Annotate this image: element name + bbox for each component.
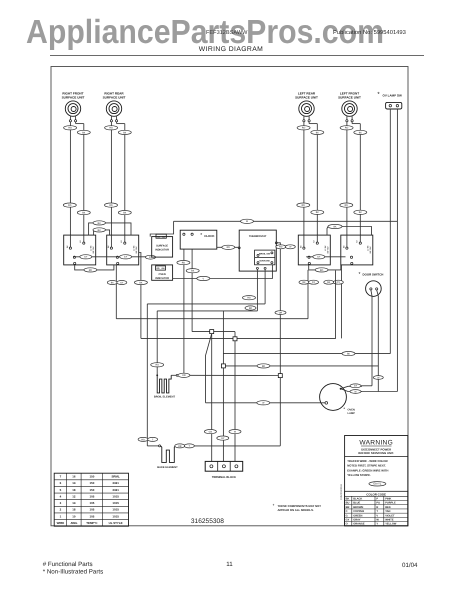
svg-text:14: 14 (72, 481, 76, 485)
svg-text:18: 18 (72, 488, 76, 492)
svg-text:RD: RD (68, 204, 72, 207)
svg-text:1015: 1015 (112, 494, 119, 498)
wire label pair (138, 437, 148, 441)
note components (273, 503, 322, 512)
svg-text:WIRE: WIRE (57, 521, 65, 525)
wire box4 bottom down (341, 265, 343, 339)
wire door switch right down (377, 290, 379, 392)
wire label (105, 126, 118, 130)
svg-text:RED: RED (385, 506, 391, 509)
svg-text:LAMP: LAMP (348, 412, 356, 415)
surface unit left rear (295, 92, 318, 122)
svg-text:16: 16 (72, 475, 76, 479)
wire clock right down (191, 249, 193, 332)
svg-text:THERMOSTAT: THERMOSTAT (249, 235, 267, 238)
header rule (50, 54, 424, 56)
svg-text:GY: GY (354, 385, 358, 388)
wire label (217, 436, 229, 440)
wire label (63, 203, 76, 207)
svg-text:YELLOW: YELLOW (385, 523, 397, 526)
svg-text:CLOCK: CLOCK (204, 234, 215, 238)
wire jumper H1 (89, 223, 131, 235)
wire label (118, 130, 131, 134)
svg-text:BK: BK (123, 131, 127, 134)
publication number (333, 29, 406, 36)
svg-text:VIOLET: VIOLET (385, 514, 395, 517)
svg-text:*: * (343, 407, 345, 412)
wire label (342, 352, 355, 356)
svg-text:RD: RD (109, 127, 113, 130)
wire label (350, 384, 361, 388)
svg-text:OR: OR (279, 312, 283, 315)
wire label (77, 130, 90, 134)
svg-text:BR: BR (346, 506, 350, 509)
wire label (311, 210, 324, 214)
svg-text:GY: GY (317, 256, 321, 259)
svg-text:OR: OR (182, 374, 186, 377)
svg-text:APPEAR ON ALL MODELS.: APPEAR ON ALL MODELS. (278, 508, 314, 512)
svg-text:# Functional Parts: # Functional Parts (43, 561, 93, 568)
svg-text:11: 11 (226, 561, 233, 568)
svg-text:BROWN: BROWN (353, 506, 363, 509)
wire oven lamp switch left (389, 109, 391, 354)
wire box2 side down (139, 253, 141, 339)
wire label (146, 255, 156, 259)
svg-text:BK: BK (123, 212, 127, 215)
wire door switch left down (371, 290, 372, 386)
wire label (93, 228, 106, 232)
svg-text:COLOR CODE: COLOR CODE (366, 492, 386, 496)
wire label (178, 373, 190, 377)
svg-text:BK: BK (111, 281, 115, 284)
svg-text:O: O (346, 523, 348, 526)
svg-text:GY: GY (221, 437, 225, 440)
svg-text:PU: PU (376, 502, 380, 505)
svg-text:GREEN: GREEN (353, 514, 362, 517)
wire bake to square (178, 445, 281, 447)
wire gauge table (54, 473, 128, 526)
watermark AppliancePartsPros.com (26, 14, 384, 51)
svg-text:BK: BK (98, 222, 102, 225)
svg-text:WIRING DIAGRAM: WIRING DIAGRAM (199, 46, 264, 53)
page number (226, 561, 233, 568)
wire broil feed (256, 269, 258, 311)
svg-text:INDICATOR: INDICATOR (155, 248, 169, 251)
wire bus A (116, 318, 308, 320)
wire diagonal (206, 334, 212, 403)
wire label (328, 224, 342, 228)
svg-text:3321: 3321 (112, 488, 119, 492)
svg-text:GN-YL: GN-YL (373, 483, 381, 486)
wire jumper H2 (94, 230, 110, 235)
svg-text:1015: 1015 (112, 501, 119, 505)
wire junction square B (233, 332, 237, 462)
wire label (80, 255, 92, 259)
wire label (373, 376, 383, 380)
svg-text:Y: Y (376, 523, 378, 526)
svg-text:INF SW: INF SW (327, 246, 330, 253)
svg-text:RD: RD (109, 204, 113, 207)
svg-text:TEMP°C: TEMP°C (86, 521, 98, 525)
tracer example symbol (369, 482, 386, 486)
wire label (93, 221, 106, 225)
wire box2 bottom down (115, 265, 117, 319)
svg-text:GY: GY (124, 256, 128, 259)
svg-text:SURFACE UNIT: SURFACE UNIT (295, 95, 318, 99)
svg-text:* Non-Illustrated Parts: * Non-Illustrated Parts (43, 569, 104, 576)
svg-text:BK: BK (316, 211, 320, 214)
svg-text:BK: BK (359, 211, 363, 214)
footer notes (43, 561, 104, 576)
svg-text:EXAMPLE: GREEN WIRE WITH: EXAMPLE: GREEN WIRE WITH (347, 468, 388, 472)
svg-text:WARNING: WARNING (359, 440, 393, 447)
svg-text:C: C (346, 510, 348, 513)
wire label (197, 276, 210, 280)
svg-text:L2 BK: L2 BK (132, 245, 135, 251)
svg-text:14: 14 (72, 501, 76, 505)
svg-text:V: V (376, 514, 378, 517)
svg-text:GY: GY (346, 518, 350, 521)
svg-text:G: G (346, 514, 348, 517)
svg-text:TERMINAL BLOCK: TERMINAL BLOCK (212, 476, 236, 479)
thermostat (238, 230, 277, 271)
svg-text:1015: 1015 (112, 508, 119, 512)
svg-text:BK: BK (302, 281, 306, 284)
model number text (206, 30, 248, 36)
svg-text:SURFACE UNIT: SURFACE UNIT (62, 95, 85, 99)
wire label (84, 268, 97, 272)
part number 316255308 (191, 518, 224, 525)
svg-text:WHITE: WHITE (385, 518, 394, 521)
svg-text:COPPER: COPPER (353, 510, 364, 513)
svg-text:RD: RD (227, 246, 231, 249)
svg-text:BK: BK (346, 497, 350, 500)
surface indicator (152, 234, 173, 257)
wire label (297, 203, 310, 207)
svg-text:BK: BK (316, 131, 320, 134)
svg-text:FEF312BSAWW: FEF312BSAWW (206, 30, 248, 36)
date (402, 562, 418, 569)
svg-text:*: * (359, 271, 361, 277)
svg-text:RD: RD (141, 438, 145, 441)
wire oven lamp right lower (341, 389, 362, 392)
svg-text:RD: RD (302, 204, 306, 207)
svg-text:BK: BK (139, 281, 143, 284)
svg-text:INF SW: INF SW (92, 246, 95, 253)
wire label (313, 255, 325, 259)
svg-text:105: 105 (89, 494, 94, 498)
svg-text:316255308: 316255308 (191, 518, 224, 525)
svg-text:INDICATOR: INDICATOR (155, 277, 169, 280)
svg-text:01/04: 01/04 (402, 562, 418, 569)
svg-text:150: 150 (89, 475, 94, 479)
svg-text:NOTED FIRST, STRIPE NEXT.: NOTED FIRST, STRIPE NEXT. (347, 464, 386, 468)
broil element (154, 367, 178, 399)
svg-text:10: 10 (72, 514, 76, 518)
svg-text:BK: BK (359, 131, 363, 134)
wire (124, 140, 126, 235)
wire label (134, 280, 147, 284)
wire bake feed (264, 269, 266, 304)
svg-text:P: P (376, 497, 378, 500)
wire label (151, 363, 164, 367)
wire label (350, 390, 361, 394)
wire (110, 135, 112, 235)
wire surface unit leads (304, 122, 317, 140)
svg-text:TAN: TAN (385, 510, 390, 513)
wire clock junction (192, 330, 235, 334)
svg-text:RD: RD (345, 127, 349, 130)
wire oven lamp right upper (341, 386, 362, 388)
wire link box3-box4 (309, 265, 341, 270)
svg-text:BROIL SW: BROIL SW (259, 252, 271, 255)
infinite switch right rear (107, 235, 139, 265)
wire label (315, 268, 328, 272)
wire label (275, 311, 286, 315)
svg-text:316255308JA: 316255308JA (340, 484, 343, 500)
wire label (354, 130, 367, 134)
terminal block (205, 461, 243, 478)
wire (83, 140, 85, 235)
svg-text:BLACK: BLACK (353, 497, 362, 500)
wire label (340, 203, 353, 207)
svg-text:UL STYLE: UL STYLE (109, 521, 123, 525)
wire broil to square (178, 374, 278, 376)
title WIRING DIAGRAM (199, 46, 264, 53)
wire junction square C (221, 311, 225, 462)
svg-text:L2 BK: L2 BK (366, 245, 369, 251)
svg-text:*: * (200, 233, 202, 239)
svg-text:BK: BK (327, 281, 331, 284)
svg-text:INF SW: INF SW (369, 246, 372, 253)
wire top bus (150, 221, 397, 236)
surface unit right rear (103, 92, 126, 122)
svg-text:BLUE: BLUE (353, 502, 360, 505)
wire label (257, 401, 270, 405)
wire (346, 135, 348, 235)
wire (69, 135, 71, 235)
wire label (77, 211, 90, 215)
wire label (118, 211, 131, 215)
surface unit right front (62, 92, 85, 122)
wire label (241, 219, 254, 223)
wire label (311, 130, 324, 134)
wire oven lamp left (206, 402, 326, 404)
svg-text:RD: RD (320, 269, 324, 272)
svg-text:*: * (273, 503, 275, 508)
svg-text:BK: BK (98, 229, 102, 232)
wire clock to thermostat (217, 246, 238, 248)
bake element (147, 445, 178, 469)
wire oven indicator to thermostat (173, 265, 273, 279)
wire surface unit leads (347, 122, 360, 140)
oven indicator (152, 265, 173, 280)
svg-text:PINK: PINK (385, 497, 391, 500)
wire label pair (175, 444, 185, 448)
svg-text:GRAY: GRAY (353, 518, 361, 521)
svg-text:18: 18 (72, 508, 76, 512)
wire label (257, 364, 270, 368)
wire label pair (107, 281, 117, 285)
svg-text:RD: RD (247, 297, 251, 300)
wire to lamp switch (361, 391, 397, 393)
wire broil run (157, 310, 257, 312)
wire (316, 140, 318, 235)
wire label (64, 126, 77, 130)
svg-text:DOOR SWITCH: DOOR SWITCH (363, 273, 384, 277)
door switch (359, 271, 384, 296)
clock U1 (180, 230, 217, 249)
svg-text:L2 BK: L2 BK (324, 245, 327, 251)
svg-text:OVEN SW: OVEN SW (259, 260, 270, 263)
wire label pair (324, 280, 334, 284)
svg-text:RD: RD (182, 262, 186, 265)
warning box (345, 436, 408, 526)
svg-text:OR: OR (178, 445, 182, 448)
wire (303, 135, 305, 235)
wire jumper left pair (327, 227, 328, 236)
wire oven lamp switch right (396, 109, 398, 392)
svg-text:SURFACE UNIT: SURFACE UNIT (103, 95, 126, 99)
svg-text:GY: GY (120, 281, 124, 284)
svg-text:TRACER WIRE - WIRE COLOR: TRACER WIRE - WIRE COLOR (347, 459, 387, 463)
wire box3 bottom down (307, 270, 309, 319)
wire label (243, 296, 256, 300)
svg-text:3321: 3321 (112, 481, 119, 485)
wire pilot bus left (73, 256, 151, 258)
svg-text:INF SW: INF SW (135, 246, 138, 253)
svg-text:Publication No: 5995401493: Publication No: 5995401493 (333, 29, 406, 36)
wire label (222, 245, 235, 249)
svg-text:BEFORE SERVICING UNIT.: BEFORE SERVICING UNIT. (358, 451, 394, 455)
svg-text:R: R (376, 506, 378, 509)
svg-text:GY: GY (84, 256, 88, 259)
wire label (245, 306, 256, 310)
svg-text:150: 150 (89, 488, 94, 492)
svg-text:BK: BK (82, 212, 86, 215)
wire center down 1 (211, 334, 213, 462)
wire link box1-box2 (75, 265, 114, 270)
wire label (297, 126, 310, 130)
wire label (204, 430, 216, 434)
svg-text:BAKE ELEMENT: BAKE ELEMENT (157, 466, 178, 469)
svg-text:BROIL ELEMENT: BROIL ELEMENT (154, 396, 176, 399)
wire surface unit leads (111, 122, 124, 140)
svg-text:SRML: SRML (111, 475, 119, 479)
svg-text:12: 12 (72, 494, 76, 498)
surface unit left front (338, 92, 361, 122)
wire broil lead (0, 0, 1, 1)
svg-text:RD: RD (302, 127, 306, 130)
svg-text:RD: RD (89, 269, 93, 272)
wire bus D (223, 353, 390, 355)
svg-text:RD: RD (262, 365, 266, 368)
wire junction square D (278, 374, 282, 446)
wire label (105, 203, 118, 207)
svg-text:GY: GY (312, 281, 316, 284)
wire (359, 140, 361, 235)
svg-text:OV LAMP SW: OV LAMP SW (383, 93, 402, 97)
svg-text:RD: RD (249, 307, 253, 310)
svg-text:GN: GN (209, 431, 213, 434)
svg-text:BK: BK (191, 270, 195, 273)
wire label (120, 255, 132, 259)
oven lamp switch (377, 91, 402, 109)
wire label (177, 261, 190, 265)
svg-text:1015: 1015 (112, 514, 119, 518)
infinite switch right front (64, 235, 96, 265)
svg-text:RD: RD (279, 246, 283, 249)
svg-text:SURFACE UNIT: SURFACE UNIT (338, 95, 361, 99)
oven lamp (320, 384, 356, 416)
wire pilot bus right (306, 256, 345, 258)
wire thermostat right down (277, 243, 280, 374)
wire bus C (225, 365, 378, 367)
wire label pair (276, 245, 286, 249)
svg-text:PURPLE: PURPLE (385, 502, 396, 505)
wire surface unit leads (70, 122, 83, 140)
svg-text:BK: BK (347, 353, 351, 356)
infinite switch left front (341, 235, 373, 265)
wire bake run (147, 303, 265, 305)
wire label pair (299, 280, 309, 284)
svg-text:RD: RD (345, 204, 349, 207)
wire label (354, 210, 367, 214)
svg-text:BK: BK (82, 131, 86, 134)
infinite switch left rear (298, 235, 330, 265)
svg-text:RD: RD (156, 364, 160, 367)
svg-text:RD: RD (68, 127, 72, 130)
wire label (229, 430, 241, 434)
wire label (340, 126, 353, 130)
svg-text:L2 BK: L2 BK (89, 245, 92, 251)
svg-text:105: 105 (89, 508, 94, 512)
color code table (345, 491, 408, 526)
svg-text:YELLOW STRIPE.: YELLOW STRIPE. (347, 473, 371, 477)
svg-text:ORANGE: ORANGE (353, 523, 365, 526)
svg-text:GY: GY (337, 281, 341, 284)
svg-text:105: 105 (89, 501, 94, 505)
svg-text:BU: BU (346, 502, 350, 505)
svg-text:SURFACE: SURFACE (156, 245, 168, 248)
svg-text:AWG: AWG (70, 521, 78, 525)
svg-text:105: 105 (89, 514, 94, 518)
wire to door switch (361, 385, 372, 387)
svg-text:BK: BK (333, 225, 337, 228)
wire clock left down (183, 249, 185, 375)
wire bus B (141, 271, 336, 339)
svg-text:OVEN: OVEN (159, 273, 166, 276)
wire label (186, 269, 199, 273)
svg-text:150: 150 (89, 481, 94, 485)
